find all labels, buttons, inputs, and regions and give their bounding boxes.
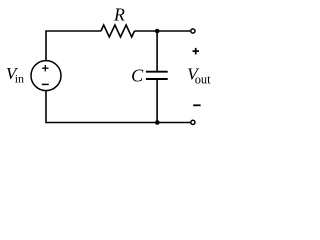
voltage source Vin circle [31,61,61,91]
capacitor C top plate [146,71,168,73]
wire capacitor top stub [156,31,158,72]
wire resistor to top terminal [135,30,191,32]
output minus sign [193,104,200,106]
resistor R [101,25,135,37]
node junction top [155,29,160,34]
svg-text:out: out [195,72,211,86]
terminal top (open circle) [191,29,195,33]
terminal bottom (open circle) [191,120,195,124]
svg-text:in: in [15,72,24,86]
wire source bottom to bottom rail [45,91,47,124]
output plus sign [193,48,200,55]
capacitor C bottom plate [146,78,168,80]
svg-text:R: R [113,4,125,24]
wire top-left: source top to resistor [46,31,101,61]
wire bottom [46,122,191,124]
voltage source minus sign [42,83,49,85]
voltage source plus sign [42,65,48,71]
node junction bottom [155,120,160,125]
wire capacitor bottom stub [156,79,158,123]
svg-text:C: C [131,66,144,86]
